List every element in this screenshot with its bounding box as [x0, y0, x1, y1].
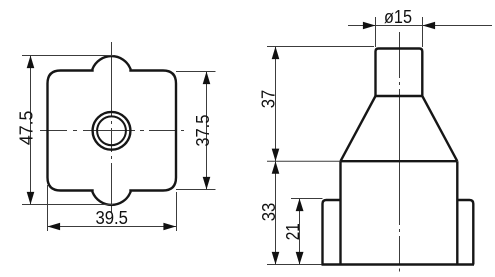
svg-text:47.5: 47.5: [15, 111, 36, 146]
svg-text:ø15: ø15: [384, 6, 412, 27]
svg-text:39.5: 39.5: [95, 207, 128, 228]
svg-text:33: 33: [258, 203, 279, 222]
svg-text:37.5: 37.5: [192, 115, 213, 147]
svg-text:21: 21: [282, 223, 303, 240]
svg-text:37: 37: [258, 90, 279, 109]
